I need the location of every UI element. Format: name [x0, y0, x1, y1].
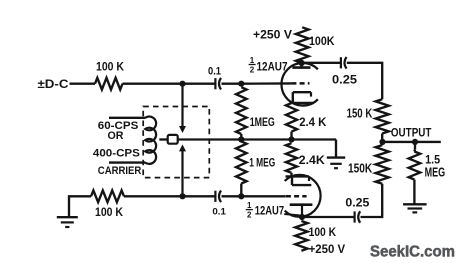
svg-text:CARRIER: CARRIER — [98, 165, 142, 177]
svg-text:MEG: MEG — [425, 165, 446, 179]
wire label leader to V2 — [284, 214, 299, 215]
node junction 1MEG bottom — [238, 193, 244, 199]
chopper armature stub — [159, 138, 167, 140]
node junction 1MEG top — [238, 81, 244, 87]
svg-text:0.1: 0.1 — [208, 66, 221, 78]
wire cathode mid to ground — [335, 140, 337, 158]
svg-text:0.25: 0.25 — [345, 196, 369, 210]
svg-text:SeekIC.com: SeekIC.com — [370, 244, 455, 261]
wire input lead — [70, 83, 96, 85]
svg-text:+250 V: +250 V — [253, 29, 292, 42]
triode V1 cathode — [293, 91, 311, 93]
triode V1 plate — [301, 63, 303, 68]
svg-text:+250 V: +250 V — [309, 243, 346, 256]
node junction output right — [412, 139, 418, 145]
svg-text:1 MEG: 1 MEG — [249, 158, 275, 170]
wire cap to V2 grid junction — [222, 195, 242, 197]
resistor 150K upper — [376, 99, 389, 133]
svg-text:150 K: 150 K — [347, 105, 373, 120]
ground output load — [403, 203, 427, 205]
svg-text:100 K: 100 K — [309, 226, 337, 239]
svg-text:0.1: 0.1 — [212, 207, 226, 218]
wire cap to top right corner and down — [347, 63, 382, 100]
wire V1 plate to 0.25 cap — [302, 62, 341, 64]
chopper dashed enclosure — [143, 107, 209, 178]
resistor 1MEG lower — [236, 141, 247, 183]
svg-text:OUTPUT: OUTPUT — [391, 125, 432, 139]
capacitor 0.25 lower — [354, 211, 356, 222]
wire output row — [383, 141, 441, 143]
svg-text:12AU7: 12AU7 — [255, 206, 284, 218]
chopper upper contact arrow (down) — [181, 84, 183, 127]
svg-text:1.5: 1.5 — [425, 152, 440, 166]
triode V2 lower half 12AU7 envelope — [285, 175, 321, 217]
svg-text:12AU7: 12AU7 — [257, 61, 288, 73]
svg-text:400-CPS: 400-CPS — [93, 148, 140, 160]
resistor 1.5 MEG — [413, 150, 416, 152]
svg-text:100 K: 100 K — [96, 61, 125, 74]
resistor 100K plate load lower (vertical) — [295, 221, 307, 251]
chopper armature contact square — [168, 135, 178, 144]
transformer carrier winding top lead — [109, 117, 145, 119]
wire top row to coupling cap — [123, 83, 216, 85]
wire chopper armature to divider mid — [177, 138, 336, 140]
wire cap to V2 plate node — [302, 216, 355, 218]
transformer carrier winding bottom lead — [109, 161, 145, 163]
wire output to 1.5MEG — [414, 142, 416, 150]
resistor 100K input (top left) — [95, 78, 123, 90]
node junction bottom chopper contact — [179, 193, 185, 199]
triode V2 grid (dashed) — [286, 195, 307, 198]
svg-text:1: 1 — [247, 201, 252, 210]
node junction V2 plate — [299, 214, 305, 220]
ground bottom left — [69, 196, 91, 217]
triode V1 grid (dashed) — [291, 82, 309, 85]
resistor 100K plate load upper (vertical) — [296, 27, 309, 63]
resistor 2.4K lower cathode — [286, 143, 297, 173]
node junction cathode mid — [288, 136, 294, 142]
svg-text:150K: 150K — [348, 160, 373, 175]
triode V2 plate — [290, 203, 313, 206]
wire bottom row to cap — [124, 195, 215, 197]
svg-text:OR: OR — [108, 130, 124, 142]
capacitor 0.25 upper — [340, 57, 342, 68]
node junction output left — [379, 139, 385, 145]
chopper lower contact arrow (up) — [181, 150, 183, 196]
svg-text:2.4 K: 2.4 K — [299, 115, 326, 129]
svg-text:1: 1 — [250, 56, 255, 65]
resistor 2.4K upper cathode — [286, 103, 297, 132]
ground cathode divider — [327, 156, 345, 158]
op section: triode V1 upper half 12AU7 envelope — [281, 63, 317, 106]
transformer carrier winding coil — [145, 116, 156, 163]
node junction V1 plate — [299, 60, 305, 66]
wire cap to grid junction — [222, 83, 242, 85]
wire grid lead upper tube — [241, 82, 291, 85]
resistor 1MEG upper — [236, 87, 247, 134]
svg-text:1MEG: 1MEG — [250, 117, 275, 129]
svg-text:0.25: 0.25 — [332, 72, 357, 86]
capacitor 0.1 lower — [214, 191, 216, 202]
triode V2 cathode — [286, 175, 310, 177]
svg-text:2: 2 — [250, 66, 255, 75]
resistor 100K bottom — [91, 190, 124, 202]
wire 1.5MEG to ground — [413, 180, 415, 205]
wire V2 grid lead — [241, 195, 285, 197]
svg-text:±D-C: ±D-C — [38, 77, 70, 91]
svg-text:2: 2 — [247, 211, 252, 220]
svg-text:100 K: 100 K — [95, 206, 124, 219]
resistor 150K lower — [381, 142, 383, 145]
node junction divider mid — [238, 136, 244, 142]
wire 150K down to corner and left to 0.25 cap — [361, 184, 383, 217]
node junction top chopper contact — [179, 81, 185, 87]
svg-text:100K: 100K — [309, 34, 335, 48]
capacitor 0.1 upper — [214, 78, 216, 89]
svg-text:2.4K: 2.4K — [299, 153, 325, 167]
